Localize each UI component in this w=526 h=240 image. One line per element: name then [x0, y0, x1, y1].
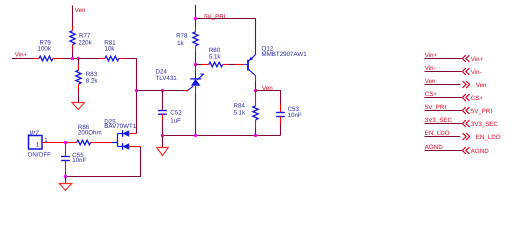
ground (mid, below rail)	[157, 148, 169, 156]
svg-text:CS+: CS+	[471, 95, 484, 102]
dual diode D25 BAV70WT1	[104, 118, 136, 149]
resistor R86	[71, 124, 102, 145]
svg-text:1k: 1k	[177, 40, 184, 47]
capacitor C55	[61, 143, 87, 173]
wire Vin+ to R79	[12, 58, 33, 60]
svg-text:C52: C52	[170, 110, 182, 117]
wire R77 to node	[72, 50, 74, 59]
svg-text:Ven: Ven	[476, 82, 487, 89]
wire R86 to D25	[97, 142, 112, 144]
junction node R83/wireA	[77, 57, 80, 60]
wire R81 to corner, down to D25 riser	[125, 59, 137, 134]
svg-text:EN_LDO: EN_LDO	[425, 130, 450, 137]
svg-text:5.1k: 5.1k	[234, 109, 247, 116]
svg-text:5V_PRI: 5V_PRI	[425, 104, 447, 111]
resistor R78	[176, 19, 198, 53]
ground (bottom left)	[59, 184, 72, 191]
port Vin+	[425, 52, 484, 63]
wire D24 anode down	[195, 86, 197, 93]
wire R80 to Q12 base	[235, 64, 244, 66]
power 5V_PRI	[196, 5, 226, 20]
port Vin-	[425, 65, 482, 76]
svg-text:Ven: Ven	[425, 78, 436, 85]
svg-text:8.2k: 8.2k	[86, 78, 99, 85]
power Ven (top)	[73, 6, 87, 15]
svg-text:5.1k: 5.1k	[209, 53, 222, 60]
svg-text:EN_LDO: EN_LDO	[476, 134, 501, 141]
port CS+	[425, 91, 484, 102]
junction rail/R84	[254, 134, 257, 137]
junction C52 top	[161, 89, 164, 92]
svg-text:AGND: AGND	[425, 144, 443, 151]
wire gnd stub mid	[162, 136, 164, 148]
svg-text:Vin+: Vin+	[15, 51, 28, 58]
wire ref to D24	[183, 90, 187, 92]
port Ven (output)	[425, 78, 488, 89]
svg-text:BAV70WT1: BAV70WT1	[104, 123, 136, 130]
junction riser/ref-wire	[135, 89, 138, 92]
svg-text:JP7: JP7	[27, 130, 39, 137]
capacitor C53	[276, 105, 302, 125]
wire Ven node to C53	[256, 91, 281, 105]
connector JP7	[27, 130, 51, 159]
resistor R80	[196, 47, 236, 67]
junction rail/D24 anode	[194, 134, 197, 137]
wire D25 top cathode up	[129, 133, 136, 135]
svg-text:ON/OFF: ON/OFF	[28, 151, 52, 158]
svg-text:AGND: AGND	[471, 148, 489, 155]
resistor R84	[234, 91, 259, 128]
wire collector to Ven node	[255, 81, 257, 91]
svg-text:CS+: CS+	[425, 91, 438, 98]
svg-text:Vin-: Vin-	[471, 69, 482, 76]
wire C53 to rail	[280, 124, 282, 136]
svg-text:MMBT2907AW1: MMBT2907AW1	[262, 51, 308, 58]
wire Q12 emitter pin	[255, 50, 257, 55]
wire bottom loop to C55 ground	[66, 147, 141, 177]
wire gnd stub bottom-left	[65, 177, 67, 184]
junction C55 bottom	[64, 175, 67, 178]
port 5V_PRI	[425, 104, 493, 115]
svg-text:10nF: 10nF	[72, 157, 86, 164]
svg-text:5V_PRI: 5V_PRI	[204, 13, 226, 20]
ground (below R83)	[72, 103, 85, 110]
svg-text:Vin+: Vin+	[471, 56, 484, 63]
capacitor C52	[158, 91, 182, 125]
wire C55 to bottom node	[65, 172, 67, 177]
resistor R79	[33, 40, 61, 61]
transistor Q12	[248, 46, 307, 76]
wire 5V_PRI rail to Q12 emitter	[196, 19, 256, 51]
port 3V3_SEC	[425, 117, 499, 128]
wire R78 to cathode node	[195, 52, 197, 65]
svg-text:10nF: 10nF	[288, 112, 302, 119]
wire 5V_PRI stub	[195, 11, 197, 19]
shunt regulator D24 TLV431	[156, 65, 204, 92]
wire R84 to rail	[255, 128, 257, 136]
svg-text:Vin+: Vin+	[425, 52, 438, 59]
wire R79 to R81	[61, 58, 99, 60]
svg-text:10k: 10k	[105, 46, 116, 53]
wire JP7 to R86	[42, 142, 71, 144]
junction Ven node	[254, 89, 257, 92]
junction node R77/wireA	[71, 57, 74, 60]
resistor R77	[70, 26, 93, 50]
wire Ven to R77	[72, 12, 74, 28]
svg-text:TLV431: TLV431	[156, 75, 178, 82]
svg-text:200Ohm: 200Ohm	[78, 130, 102, 137]
junction rail/C52/gnd	[161, 134, 164, 137]
junction C55 top	[64, 141, 67, 144]
junction 5V_PRI rail	[194, 17, 197, 20]
junction R78/R80/D24 node	[194, 63, 197, 66]
wire D25 bottom cathode	[129, 146, 140, 148]
wire C52 to rail	[162, 120, 164, 136]
wire R83 to ground	[78, 90, 80, 103]
svg-text:Vin-: Vin-	[425, 65, 436, 72]
wire Q12 collector pin	[255, 76, 257, 81]
resistor R81	[99, 40, 125, 61]
bottom rail wire	[163, 135, 281, 137]
svg-text:1uF: 1uF	[170, 117, 181, 124]
port AGND	[425, 144, 490, 155]
svg-text:220k: 220k	[78, 40, 92, 47]
svg-text:3V3_SEC: 3V3_SEC	[425, 117, 453, 124]
resistor R83	[76, 59, 99, 90]
port EN_LDO (output)	[425, 130, 501, 141]
svg-text:100k: 100k	[38, 46, 52, 53]
svg-text:Ven: Ven	[75, 7, 86, 14]
svg-text:5V_PRI: 5V_PRI	[471, 108, 493, 115]
svg-text:R78: R78	[176, 33, 188, 40]
svg-text:Ven: Ven	[262, 85, 273, 92]
svg-text:1: 1	[36, 141, 40, 148]
svg-text:3V3_SEC: 3V3_SEC	[471, 121, 499, 128]
svg-text:R77: R77	[79, 33, 91, 40]
